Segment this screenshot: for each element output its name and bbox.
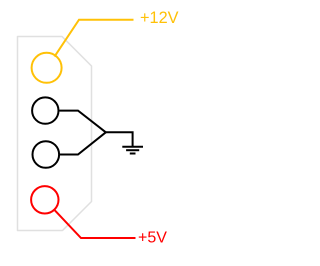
pin 2 (GND) [32,97,58,123]
ground [122,147,143,154]
connector outline J1 [18,37,92,231]
wire pin3 to junction [60,132,106,154]
pin 4 (+5V) [31,186,58,213]
pin 1 (+12V) [32,53,62,83]
wire +12V [55,20,134,57]
svg-text:+5V: +5V [138,230,167,247]
svg-text:+12V: +12V [140,9,179,27]
pin 3 (GND) [33,141,60,168]
wire pin2 to junction [60,111,106,133]
wire +5V [55,210,136,238]
wire junction to ground [106,132,133,147]
